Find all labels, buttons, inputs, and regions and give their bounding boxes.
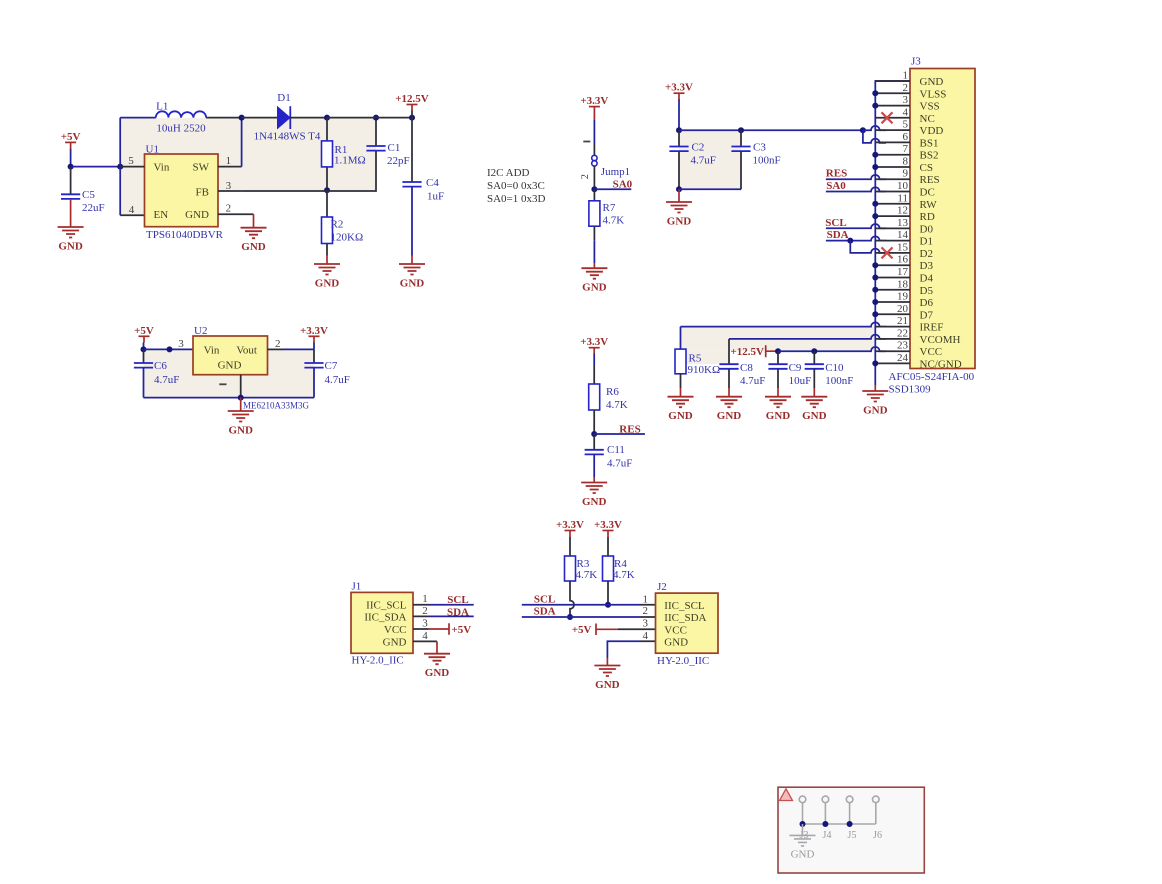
svg-text:D0: D0 [920, 223, 934, 235]
pin GND stub [218, 213, 254, 215]
ground C11 [581, 483, 607, 494]
node c2 bottom junction [676, 186, 682, 192]
node +12.5V junction [409, 115, 415, 121]
wire riser to L1 and EN [119, 118, 121, 216]
svg-text:HY-2.0_IIC: HY-2.0_IIC [352, 655, 404, 667]
svg-text:10uH 2520: 10uH 2520 [156, 122, 206, 134]
node R1 top junction [324, 115, 330, 121]
svg-text:RD: RD [920, 211, 935, 223]
svg-text:2: 2 [275, 338, 281, 350]
svg-text:GND: GND [218, 360, 242, 372]
capacitor C5 [70, 167, 72, 195]
svg-text:11: 11 [897, 192, 908, 204]
pin number 1 (rotated dash) [219, 383, 226, 385]
pin 12 RD [875, 215, 910, 217]
svg-text:4.7uF: 4.7uF [154, 374, 179, 386]
svg-text:20: 20 [897, 303, 909, 315]
svg-text:GND: GND [315, 278, 340, 290]
svg-text:CS: CS [920, 162, 933, 174]
svg-text:RES: RES [920, 174, 940, 186]
diode D1 1N4148WS [278, 107, 291, 129]
wire SDA [429, 615, 474, 617]
svg-text:GND: GND [228, 425, 253, 437]
svg-text:12: 12 [897, 205, 908, 217]
wire SCL (to J2) [522, 604, 641, 606]
svg-text:GND: GND [185, 209, 209, 221]
svg-text:9: 9 [903, 168, 909, 180]
wire SDA (to J2) [522, 616, 641, 618]
svg-text:1.1MΩ: 1.1MΩ [334, 155, 366, 167]
svg-text:C9: C9 [789, 362, 802, 374]
svg-text:13: 13 [897, 217, 909, 229]
wire SA0 [594, 188, 631, 190]
svg-text:IIC_SCL: IIC_SCL [366, 600, 407, 612]
capacitor C10 [813, 351, 815, 364]
resistor R2 [326, 190, 328, 217]
wire gnd bus [875, 81, 910, 385]
svg-text:GND: GND [400, 278, 425, 290]
capacitor C6 [143, 349, 145, 363]
node bus junction pin 11 [872, 201, 878, 207]
wire SCL to pin13 [826, 224, 886, 228]
svg-text:FB: FB [196, 187, 209, 199]
pin 21 IREF [875, 326, 910, 328]
svg-text:R7: R7 [603, 202, 616, 214]
svg-text:3: 3 [178, 338, 184, 350]
node bus junction pin 19 [872, 299, 878, 305]
svg-text:14: 14 [897, 229, 909, 241]
svg-text:RES: RES [826, 168, 847, 180]
svg-text:D7: D7 [920, 309, 934, 321]
pin Vout stub [268, 348, 284, 350]
svg-text:16: 16 [897, 254, 909, 266]
svg-text:C6: C6 [154, 360, 167, 372]
svg-text:1uF: 1uF [427, 191, 444, 203]
pin 7 BS2 [875, 154, 910, 156]
ground C5 [58, 227, 84, 238]
svg-text:Vin: Vin [204, 344, 220, 356]
wire [593, 166, 595, 189]
ground R7 [581, 268, 607, 279]
node +5V junction [68, 164, 74, 170]
svg-text:1: 1 [422, 593, 428, 605]
svg-text:7: 7 [903, 143, 909, 155]
svg-text:IIC_SCL: IIC_SCL [664, 600, 705, 612]
wire gray bus [803, 823, 876, 825]
ground R2 [314, 264, 340, 275]
pin 22 VCOMH [875, 338, 910, 340]
node C9 junction [775, 348, 781, 354]
pin 1 GND [875, 80, 910, 82]
inductor L1 [120, 117, 156, 119]
svg-text:R5: R5 [689, 353, 702, 365]
svg-text:DC: DC [920, 187, 935, 199]
svg-text:J4: J4 [823, 830, 832, 841]
svg-text:ME6210A33M3G: ME6210A33M3G [243, 401, 310, 411]
svg-text:SW: SW [193, 162, 210, 174]
wire J2 pin4 gnd [607, 641, 640, 658]
svg-text:3: 3 [903, 94, 909, 106]
wire [290, 117, 327, 119]
svg-text:1: 1 [643, 593, 649, 605]
ground C8 [716, 397, 742, 408]
wire bottom [679, 188, 741, 190]
power flag +5V [65, 141, 76, 143]
svg-text:R6: R6 [606, 386, 619, 398]
svg-text:+5V: +5V [61, 131, 81, 143]
capacitor C2 [678, 130, 680, 146]
connector J1 HY-2.0_IIC [351, 592, 413, 653]
svg-text:4: 4 [903, 106, 909, 118]
svg-text:D6: D6 [920, 297, 934, 309]
svg-text:+3.3V: +3.3V [556, 519, 584, 531]
svg-text:120KΩ: 120KΩ [331, 232, 364, 244]
svg-text:GND: GND [802, 410, 827, 422]
capacitor C4 [411, 111, 413, 183]
svg-text:U2: U2 [194, 325, 207, 337]
svg-text:4.7K: 4.7K [603, 214, 625, 226]
ground C9 [765, 397, 791, 408]
svg-text:2: 2 [903, 82, 909, 94]
shaded region r5 c8 area [681, 327, 874, 351]
ground C2 [678, 189, 680, 202]
shaded region c2 c3 loop [679, 130, 741, 189]
resistor R3 [565, 556, 576, 581]
wire [327, 117, 412, 119]
resistor R7 [593, 189, 595, 201]
svg-text:+3.3V: +3.3V [580, 95, 608, 107]
node SW junction [239, 115, 245, 121]
svg-text:4: 4 [643, 630, 649, 642]
wire SCL [429, 604, 474, 606]
svg-text:TPS61040DBVR: TPS61040DBVR [146, 229, 224, 241]
svg-text:GND: GND [425, 667, 450, 679]
svg-text:VLSS: VLSS [920, 88, 947, 100]
svg-text:Vout: Vout [236, 344, 257, 356]
ground J1 pin4 [436, 641, 438, 653]
svg-text:RW: RW [920, 199, 938, 211]
svg-text:BS1: BS1 [920, 137, 939, 149]
pin 15 D2 [875, 252, 910, 254]
svg-text:D4: D4 [920, 273, 934, 285]
pin FB stub [218, 190, 242, 192]
svg-text:GND: GND [667, 216, 692, 228]
pin SW stub [218, 166, 242, 168]
node SDA junction [847, 238, 853, 244]
pin 5 VDD [875, 129, 910, 131]
svg-text:VDD: VDD [920, 125, 944, 137]
node bus junction pin 20 [872, 311, 878, 317]
svg-text:5: 5 [128, 155, 134, 167]
ground C10 [801, 397, 827, 408]
svg-text:SA0: SA0 [826, 180, 846, 192]
svg-text:+5V: +5V [452, 624, 472, 636]
resistor R1 [326, 118, 328, 141]
annotation box mounting jumpers [778, 787, 924, 873]
wire [283, 348, 314, 350]
power flag +3.3V (jump) [589, 106, 600, 108]
capacitor C9 [777, 351, 779, 364]
svg-text:C10: C10 [825, 362, 844, 374]
no-connect X pin15 [882, 247, 893, 258]
node R3-SDA junction [567, 614, 573, 620]
svg-text:1: 1 [226, 155, 232, 167]
jumper Jump1 [592, 155, 597, 160]
ground U2 [240, 398, 242, 411]
wire [242, 117, 278, 119]
svg-text:C1: C1 [388, 142, 401, 154]
svg-text:17: 17 [897, 266, 909, 278]
node +5V ldo junction [141, 346, 147, 352]
svg-text:NC: NC [920, 113, 935, 125]
power flag +3.3V (R3) [565, 530, 576, 532]
pin GND stub U2 [240, 375, 242, 398]
svg-text:VCOMH: VCOMH [920, 334, 961, 346]
svg-text:2: 2 [226, 203, 232, 215]
svg-text:4.7uF: 4.7uF [740, 375, 765, 387]
wire vdd rail [679, 129, 863, 131]
svg-text:C8: C8 [740, 362, 753, 374]
pin 18 D5 [875, 289, 910, 291]
svg-text:4.7uF: 4.7uF [325, 374, 350, 386]
svg-text:R2: R2 [331, 219, 344, 231]
svg-text:4: 4 [422, 630, 428, 642]
svg-text:+5V: +5V [572, 624, 592, 636]
power flag +12.5V [407, 104, 418, 106]
wire R4 to SCL [607, 581, 609, 605]
ground C4 [399, 264, 425, 275]
svg-text:D1: D1 [920, 236, 933, 248]
svg-text:3: 3 [422, 618, 428, 630]
pin 20 D7 [875, 313, 910, 315]
svg-text:VCC: VCC [920, 346, 943, 358]
svg-text:22uF: 22uF [82, 202, 105, 214]
svg-text:SDA: SDA [827, 229, 849, 241]
node junction J3 pad [800, 821, 806, 827]
power flag +3.3V (ldo out) [309, 335, 320, 337]
capacitor C1 [375, 118, 377, 146]
svg-text:VCC: VCC [384, 624, 407, 636]
svg-text:GND: GND [920, 76, 944, 88]
pin stubs J2 [641, 605, 656, 642]
svg-text:Vin: Vin [154, 162, 170, 174]
svg-text:GND: GND [791, 848, 815, 860]
svg-text:4: 4 [129, 204, 135, 216]
svg-text:GND: GND [863, 405, 888, 417]
svg-text:C11: C11 [607, 444, 625, 456]
svg-text:L1: L1 [156, 100, 168, 112]
svg-text:I2C ADD: I2C ADD [487, 167, 530, 179]
node bus junction pin 3 [872, 103, 878, 109]
wire bottom loop [144, 397, 315, 399]
node R4-SCL junction [605, 602, 611, 608]
node junction J4 pad [822, 821, 828, 827]
svg-text:21: 21 [897, 315, 908, 327]
connector J3 AFC05-S24FIA-00 [910, 69, 975, 369]
svg-text:8: 8 [903, 156, 909, 168]
svg-text:SCL: SCL [534, 593, 555, 605]
svg-text:4.7uF: 4.7uF [691, 154, 716, 166]
svg-text:SA0=1 0x3D: SA0=1 0x3D [487, 193, 546, 205]
svg-text:J5: J5 [848, 830, 857, 841]
svg-text:24: 24 [897, 352, 909, 364]
node C1 top junction [373, 115, 379, 121]
svg-text:GND: GND [766, 410, 791, 422]
svg-text:D1: D1 [277, 92, 290, 104]
svg-text:C4: C4 [426, 177, 439, 189]
svg-text:+3.3V: +3.3V [300, 325, 328, 337]
pin 23 VCC [875, 350, 910, 352]
pin 24 NC/GND [875, 362, 910, 364]
wire to pin5 VDD (hop) [863, 126, 886, 130]
wire SW riser [241, 118, 243, 167]
svg-text:SSD1309: SSD1309 [889, 384, 932, 396]
svg-text:VSS: VSS [920, 101, 940, 113]
svg-text:+12.5V: +12.5V [395, 93, 429, 105]
wire SA0 to pin10 [826, 187, 886, 191]
node bus junction pin 7 [872, 152, 878, 158]
wire R3 to SDA (hop over SCL) [570, 581, 574, 617]
power flag +3.3V (R4) [603, 530, 614, 532]
node bus junction pin 8 [872, 164, 878, 170]
wire [71, 166, 121, 168]
pin 9 RES [875, 178, 910, 180]
svg-text:C3: C3 [753, 141, 766, 153]
svg-text:J6: J6 [873, 830, 882, 841]
wire FB net [242, 151, 376, 191]
ground R5 [668, 397, 694, 408]
svg-text:+3.3V: +3.3V [580, 336, 608, 348]
node bus junction pin 18 [872, 287, 878, 293]
node RES junction [591, 431, 597, 437]
node junction J5 pad [847, 821, 853, 827]
svg-text:GND: GND [58, 241, 83, 253]
capacitor C7 [313, 349, 315, 363]
node bus junction pin 24 [872, 360, 878, 366]
node C10 junction [811, 348, 817, 354]
wire SDA to pin14 [826, 236, 886, 240]
node SA0 junction [591, 186, 597, 192]
node bus junction pin 12 [872, 213, 878, 219]
ground gray [802, 824, 804, 835]
connector J2 HY-2.0_IIC [656, 593, 719, 653]
svg-text:GND: GND [241, 241, 266, 253]
svg-text:23: 23 [897, 340, 909, 352]
power flag +3.3V (c2) [674, 92, 685, 94]
wire VCC rail to pin23 (hop) [778, 347, 886, 351]
svg-text:C2: C2 [692, 141, 705, 153]
pin 8 CS [875, 166, 910, 168]
svg-text:+3.3V: +3.3V [594, 519, 622, 531]
warning triangle [780, 789, 793, 801]
svg-text:100nF: 100nF [825, 375, 853, 387]
svg-text:C7: C7 [325, 360, 338, 372]
svg-text:J1: J1 [352, 581, 362, 593]
pin 13 D0 [875, 227, 910, 229]
svg-text:SDA: SDA [447, 606, 469, 618]
svg-text:SCL: SCL [447, 594, 468, 606]
resistor R4 [603, 556, 614, 581]
capacitor C8 [729, 335, 886, 339]
pin 14 D1 [875, 240, 910, 242]
svg-text:GND: GND [664, 636, 688, 648]
svg-text:J3: J3 [911, 56, 921, 68]
svg-text:GND: GND [668, 410, 693, 422]
svg-text:SDA: SDA [534, 606, 556, 618]
capacitor C3 [740, 130, 742, 146]
node FB junction [324, 187, 330, 193]
pin 16 D3 [875, 264, 910, 266]
wire EN [120, 214, 144, 216]
jumper pad J5 [846, 796, 853, 803]
svg-text:IIC_SDA: IIC_SDA [664, 612, 706, 624]
svg-text:NC/GND: NC/GND [920, 358, 962, 370]
svg-text:GND: GND [383, 636, 407, 648]
svg-text:Jump1: Jump1 [601, 166, 630, 178]
pin stubs J1 [413, 605, 437, 642]
svg-text:+3.3V: +3.3V [665, 82, 693, 94]
svg-text:10: 10 [897, 180, 909, 192]
ground J2 [594, 666, 620, 677]
svg-text:+12.5V: +12.5V [731, 346, 765, 358]
pin 19 D6 [875, 301, 910, 303]
svg-text:AFC05-S24FIA-00: AFC05-S24FIA-00 [889, 371, 975, 383]
svg-text:15: 15 [897, 241, 909, 253]
pin 17 D4 [875, 277, 910, 279]
svg-text:100nF: 100nF [753, 154, 781, 166]
svg-text:4.7K: 4.7K [576, 569, 598, 581]
svg-text:4.7uF: 4.7uF [607, 458, 632, 470]
pin 10 DC [875, 191, 910, 193]
resistor R5 [680, 327, 682, 350]
power flag +5V (ldo) [139, 335, 150, 337]
resistor R6 [589, 384, 600, 410]
node vin junction [117, 164, 123, 170]
node bus junction pin 16 [872, 262, 878, 268]
svg-text:4.7K: 4.7K [613, 569, 635, 581]
no-connect X pin4 [882, 112, 893, 123]
power flag +5V (J1 pin3) [429, 623, 450, 634]
svg-text:GND: GND [717, 410, 742, 422]
jumper pad J4 [822, 796, 829, 803]
svg-text:J2: J2 [657, 581, 667, 593]
IC U1 TPS61040DBVR [145, 154, 219, 227]
jumper pad J6 [873, 796, 880, 803]
node bus junction pin 2 [872, 90, 878, 96]
svg-text:GND: GND [595, 679, 620, 691]
wire [144, 348, 194, 350]
pin Vin stub [120, 166, 144, 168]
svg-text:22pF: 22pF [387, 155, 410, 167]
wire SDA to pin15 D2 (hop) [850, 241, 886, 253]
svg-text:4.7K: 4.7K [606, 399, 628, 411]
svg-text:BS2: BS2 [920, 150, 939, 162]
svg-text:5: 5 [903, 119, 909, 131]
node c2 top junction [676, 127, 682, 133]
svg-text:6: 6 [903, 131, 909, 143]
pin number 1 (rotated dash) [583, 141, 590, 143]
svg-text:IIC_SDA: IIC_SDA [364, 611, 406, 623]
pin 11 RW [875, 203, 910, 205]
wire RES [594, 433, 645, 435]
svg-text:C5: C5 [82, 189, 95, 201]
svg-text:D2: D2 [920, 248, 933, 260]
pin 6 BS1 [875, 141, 910, 143]
shaded region ldo loop [144, 349, 315, 397]
ground U1 pin2 [253, 214, 255, 228]
node c3 top junction [738, 127, 744, 133]
svg-text:D3: D3 [920, 260, 934, 272]
